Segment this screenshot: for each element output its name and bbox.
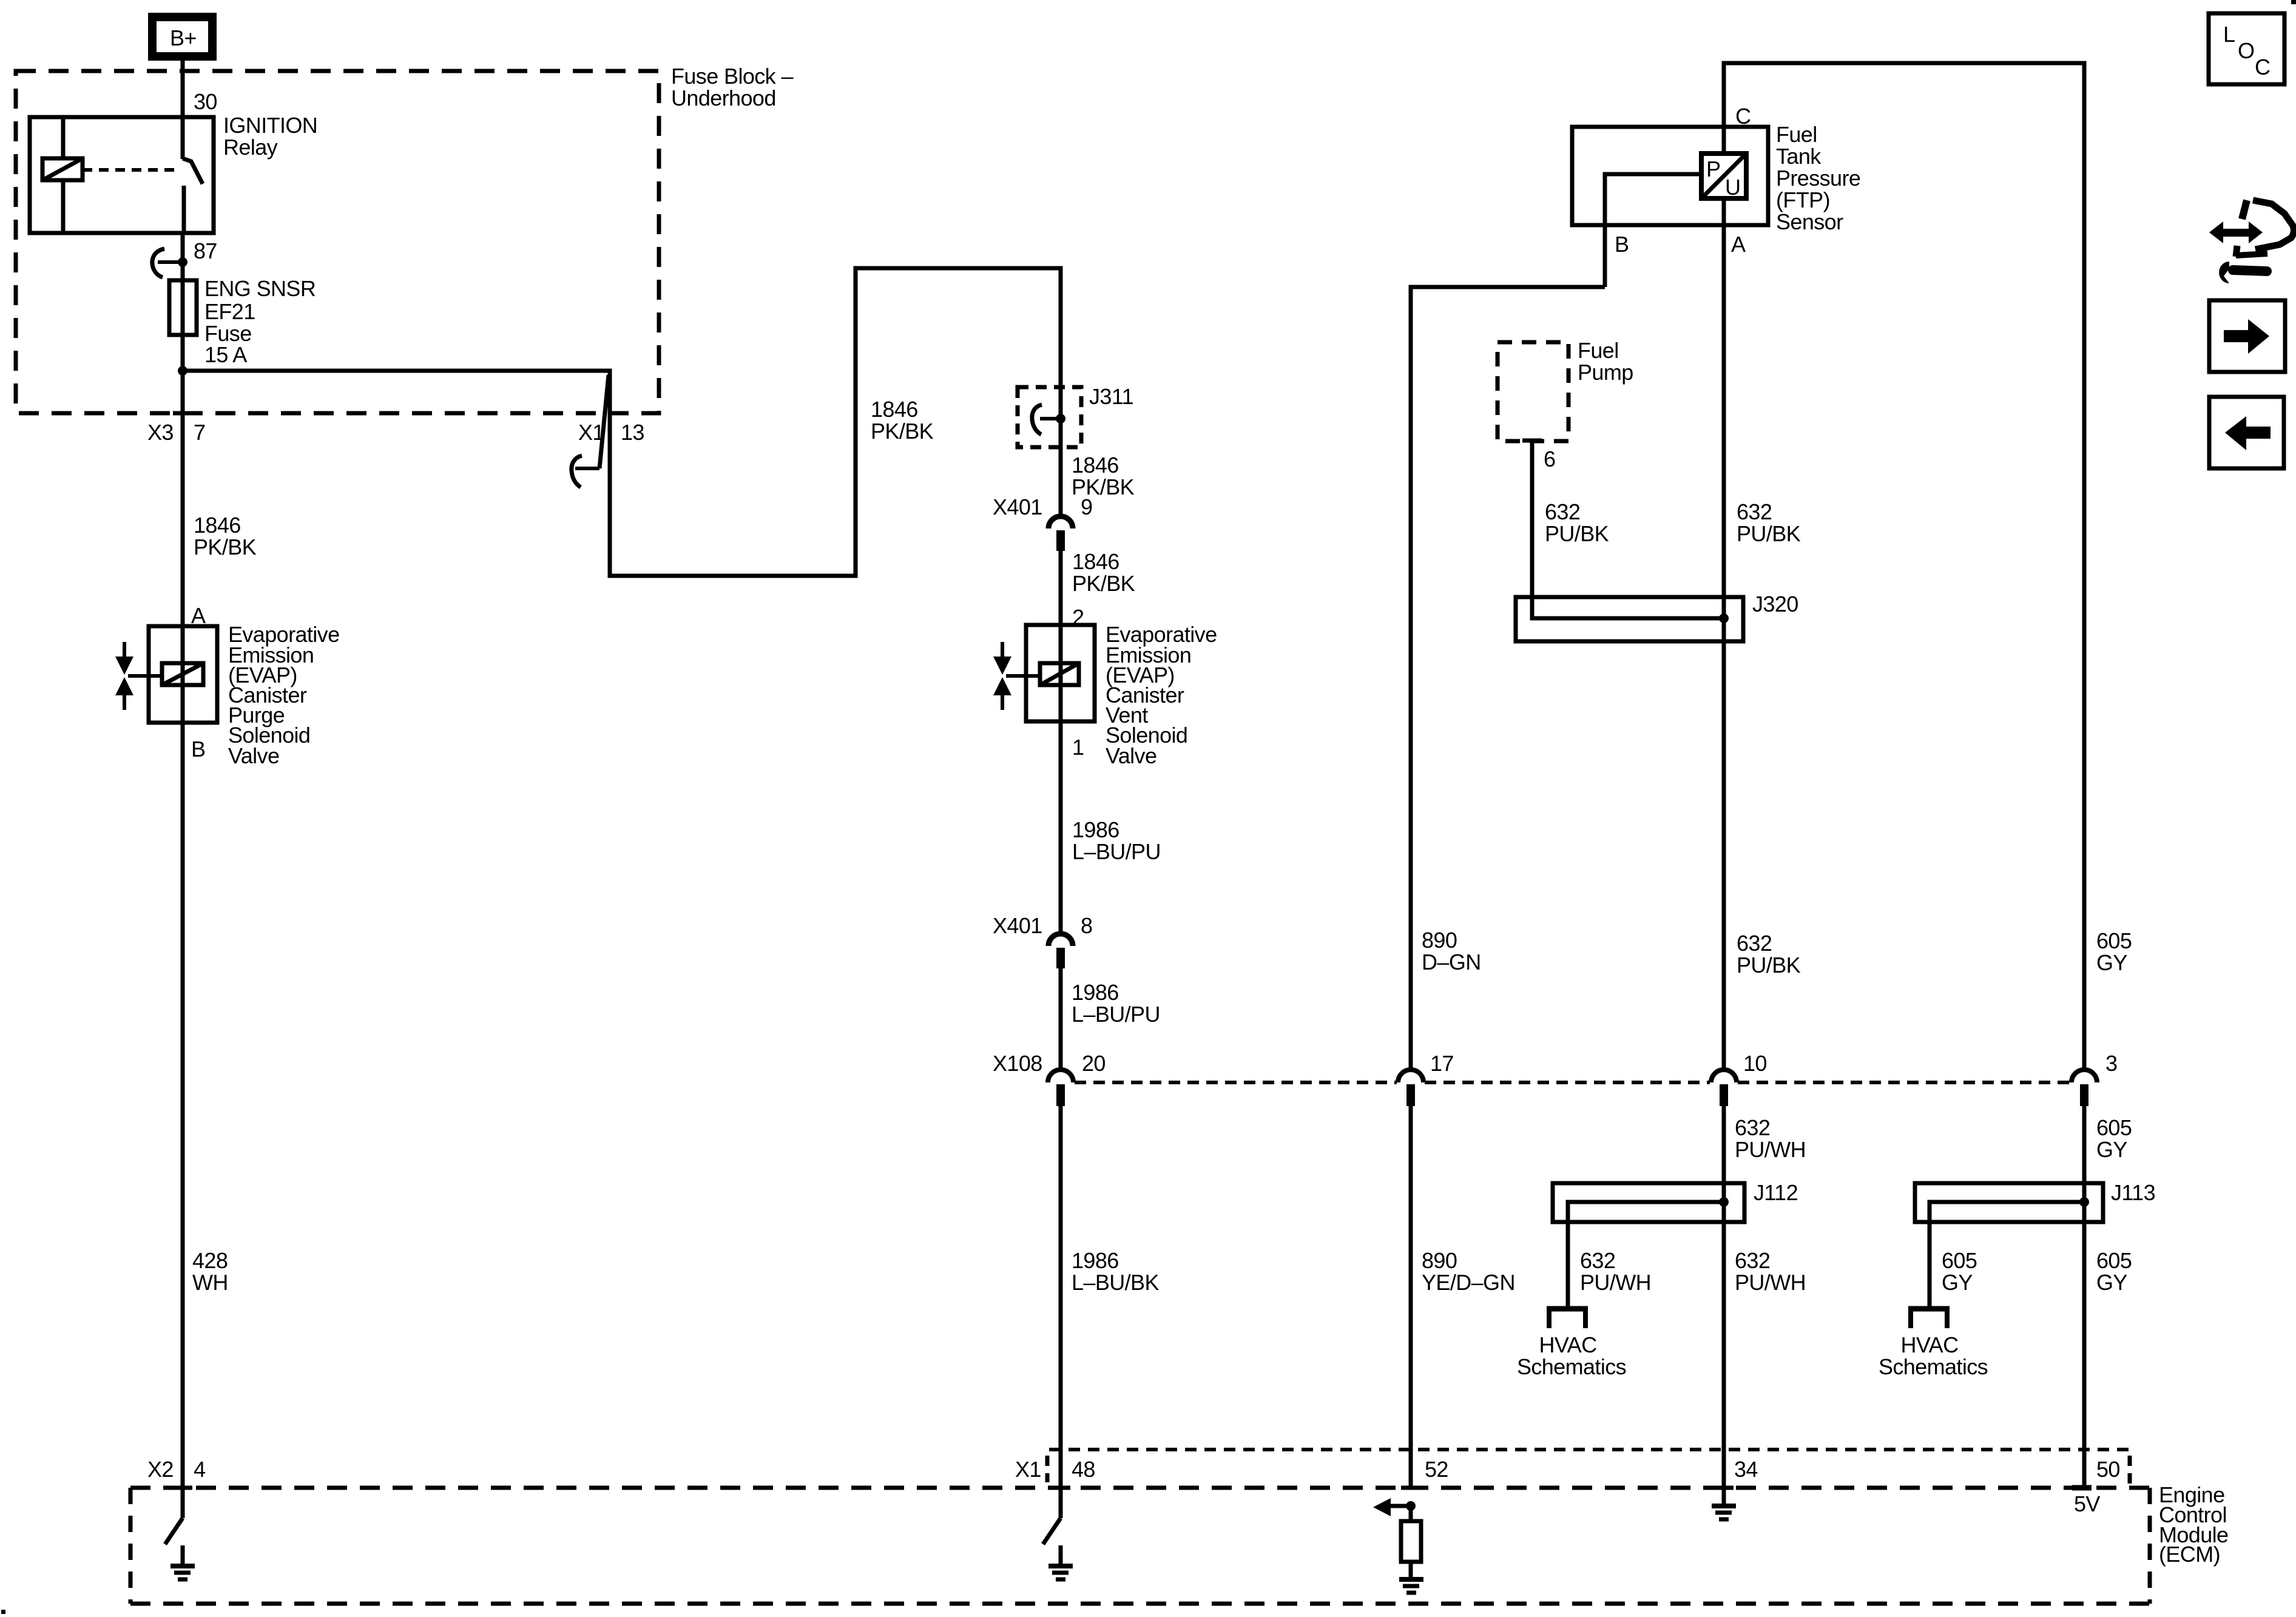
svg-text:48: 48 (1072, 1457, 1095, 1482)
label 605 GY HVAC drop (1942, 1248, 1977, 1295)
relay label (223, 113, 317, 160)
svg-text:890: 890 (1422, 928, 1457, 953)
tick at X2-4 ECM crossing (173, 1486, 192, 1490)
svg-text:HVAC: HVAC (1901, 1332, 1959, 1357)
label 632 PU/WH above J112 (1735, 1115, 1806, 1162)
tick at 52 crossing (1401, 1486, 1420, 1490)
wire B+ down to relay switch pivot (181, 61, 185, 159)
label Engine Control Module (ECM) (2159, 1482, 2228, 1567)
fuse ENG SNSR EF21 (169, 280, 197, 335)
svg-text:30: 30 (194, 89, 217, 114)
svg-text:X401: X401 (993, 495, 1042, 519)
svg-text:6: 6 (1544, 447, 1555, 471)
svg-text:Pump: Pump (1578, 360, 1633, 385)
svg-text:X2: X2 (147, 1457, 174, 1482)
purge solenoid coil (162, 663, 203, 685)
ground inside ECM at pin 34 (1712, 1488, 1736, 1519)
label X401 9 (993, 495, 1092, 519)
LOC reference box (2209, 13, 2284, 84)
ECM junction dot at pin 52 (1406, 1501, 1416, 1511)
svg-text:C: C (2255, 55, 2270, 79)
svg-text:J112: J112 (1754, 1180, 1798, 1205)
FTP internal wiring to pin B (1605, 174, 1701, 287)
tick at X3 connector crossing (173, 411, 192, 416)
label X401 8 (993, 913, 1092, 938)
wire B left and down to X108-17 (1411, 287, 1605, 1070)
J113 junction dot (2079, 1197, 2089, 1207)
svg-text:L–BU/PU: L–BU/PU (1072, 1002, 1160, 1027)
svg-text:8: 8 (1081, 913, 1092, 938)
svg-text:7: 7 (194, 420, 205, 445)
label Fuse Block - Underhood (671, 64, 793, 110)
svg-text:1846: 1846 (194, 513, 241, 538)
forward arrow box (2209, 300, 2285, 372)
ground inside ECM at pin 4 (171, 1545, 195, 1579)
svg-text:J320: J320 (1752, 592, 1798, 616)
resistor inside ECM (1401, 1506, 1421, 1577)
svg-text:WH: WH (192, 1270, 228, 1295)
svg-text:Underhood: Underhood (671, 86, 776, 110)
wire fuse to output junction (181, 335, 185, 371)
splice J113 bus bar (1915, 1183, 2103, 1222)
splice J311 dashed box (1018, 387, 1081, 447)
connector X108 pin 20 (1048, 1070, 1073, 1106)
ground inside ECM at pin 52 (1399, 1579, 1423, 1593)
label 1846 PK/BK left wire (194, 513, 257, 559)
service information icon vehicle with arrow and wrench (2209, 200, 2294, 283)
connector X108 pin 3 (2071, 1070, 2097, 1106)
svg-text:PU/WH: PU/WH (1735, 1137, 1806, 1162)
label X3 7 (147, 420, 205, 445)
svg-text:O: O (2238, 38, 2254, 63)
svg-text:605: 605 (1942, 1248, 1977, 1273)
wire relay 87 to fuse (181, 233, 185, 280)
purge valve label (228, 622, 340, 768)
svg-text:Schematics: Schematics (1517, 1354, 1626, 1379)
wire X108-20 down to ECM X1-48 (1059, 1106, 1063, 1518)
back arrow box (2209, 397, 2284, 468)
X1 ECM connector dotted line (1047, 1450, 2131, 1487)
svg-text:GY: GY (1942, 1270, 1973, 1295)
svg-text:PU/BK: PU/BK (1737, 953, 1801, 977)
Fuel Pump dashed box (1497, 342, 1568, 441)
vent solenoid coil (1040, 663, 1079, 685)
page artifact bottom left (1, 1610, 5, 1614)
ECM internal switch at pin 48 (1043, 1518, 1061, 1544)
svg-text:Fuse Block –: Fuse Block – (671, 64, 793, 89)
svg-text:Pressure: Pressure (1776, 166, 1860, 191)
svg-text:1846: 1846 (1072, 453, 1119, 478)
label 605 GY above J113 (2096, 1115, 2132, 1162)
label 428 WH (192, 1248, 228, 1295)
svg-text:5V: 5V (2074, 1491, 2100, 1516)
label X1 48 (1015, 1457, 1095, 1482)
label X2 4 (147, 1457, 205, 1482)
EVAP canister purge solenoid valve box (149, 626, 217, 723)
label 632 PU/BK pump wire (1545, 499, 1609, 546)
wire vent 1 down to X401-8 (1059, 721, 1063, 931)
svg-text:X108: X108 (993, 1051, 1042, 1076)
label 890 D-GN (1422, 928, 1481, 974)
svg-text:1: 1 (1072, 735, 1084, 760)
label 1846 PK/BK below J311 (1072, 453, 1135, 499)
svg-text:632: 632 (1735, 1115, 1770, 1140)
wire X108-17 down to ECM 52 (1409, 1106, 1413, 1488)
connector X1 pin 13 pass-through (572, 375, 609, 487)
J320 junction dot (1719, 613, 1729, 623)
vent valve label (1106, 622, 1217, 768)
wire junction right and around loop to J311 drop (183, 268, 1061, 576)
wire X108-3 down to ECM 50 (2082, 1106, 2087, 1488)
B+ power terminal (152, 17, 212, 56)
svg-text:PK/BK: PK/BK (194, 535, 257, 559)
Fuel Pump label (1578, 338, 1633, 385)
svg-text:15 A: 15 A (204, 342, 247, 367)
svg-text:1986: 1986 (1072, 1248, 1119, 1273)
svg-text:GY: GY (2096, 950, 2127, 975)
svg-text:PU/WH: PU/WH (1735, 1270, 1806, 1295)
harness clip symbol at fuse feed (152, 249, 187, 277)
svg-text:Relay: Relay (223, 135, 278, 160)
fuse label ENG SNSR EF21 Fuse 15 A (204, 276, 316, 367)
svg-text:50: 50 (2096, 1457, 2120, 1482)
label 1846 PK/BK below X401-9 (1072, 549, 1135, 596)
svg-text:GY: GY (2096, 1137, 2127, 1162)
svg-text:632: 632 (1737, 931, 1772, 956)
svg-text:PU/BK: PU/BK (1737, 521, 1801, 546)
label 605 GY right upper (2096, 928, 2132, 975)
svg-text:605: 605 (2096, 928, 2132, 953)
svg-text:A: A (1731, 232, 1746, 257)
svg-text:X401: X401 (993, 913, 1042, 938)
svg-text:PK/BK: PK/BK (871, 419, 934, 444)
svg-text:Fuel: Fuel (1776, 122, 1817, 147)
EVAP canister vent solenoid valve box (1026, 625, 1095, 721)
svg-text:X3: X3 (147, 420, 174, 445)
svg-text:PK/BK: PK/BK (1072, 571, 1135, 596)
svg-text:1986: 1986 (1072, 980, 1119, 1005)
label 632 PU/WH below J112 (1735, 1248, 1806, 1295)
connector X401 pin 9 (1048, 516, 1073, 551)
J112 internal wire and HVAC drop (1568, 1202, 1724, 1307)
tick at X1-48 ECM crossing (1051, 1486, 1070, 1490)
svg-text:605: 605 (2096, 1115, 2132, 1140)
label 632 PU/BK A wire upper (1737, 499, 1801, 546)
svg-text:Fuel: Fuel (1578, 338, 1619, 363)
splice J320 bus bar (1516, 597, 1743, 641)
connector X108 pin 17 (1398, 1070, 1423, 1106)
svg-text:B: B (191, 737, 205, 761)
J113 internal wire and HVAC drop (1930, 1202, 2084, 1307)
svg-text:632: 632 (1545, 499, 1580, 524)
svg-text:34: 34 (1734, 1457, 1758, 1482)
svg-text:(ECM): (ECM) (2159, 1542, 2220, 1567)
svg-text:87: 87 (194, 238, 217, 263)
svg-text:YE/D–GN: YE/D–GN (1422, 1270, 1515, 1295)
svg-text:9: 9 (1081, 495, 1092, 519)
svg-text:B+: B+ (170, 25, 197, 50)
svg-text:890: 890 (1422, 1248, 1457, 1273)
svg-text:1846: 1846 (1072, 549, 1119, 574)
svg-text:10: 10 (1743, 1051, 1767, 1076)
wire X108-10 down to ECM 34 (1722, 1106, 1726, 1488)
relay coil-switch dashed link (83, 168, 180, 172)
svg-text:428: 428 (192, 1248, 228, 1273)
wire purge B down to ECM X2-4 (181, 723, 185, 1518)
svg-text:J311: J311 (1089, 384, 1133, 409)
connector X108 pin 10 (1711, 1070, 1737, 1106)
svg-text:632: 632 (1737, 499, 1772, 524)
svg-text:Valve: Valve (228, 743, 279, 768)
svg-text:PU/BK: PU/BK (1545, 521, 1609, 546)
label 1986 L-BU/PU upper (1072, 817, 1161, 864)
off-page arrow at pin 52 (1373, 1498, 1411, 1516)
svg-text:HVAC: HVAC (1539, 1332, 1597, 1357)
svg-text:52: 52 (1425, 1457, 1448, 1482)
svg-text:3: 3 (2105, 1051, 2117, 1076)
svg-text:632: 632 (1735, 1248, 1770, 1273)
5V reference wire C up over to right side down to X108-3 (1724, 63, 2084, 1070)
HVAC Schematics label left (1517, 1332, 1626, 1379)
FTP P/U transducer (1701, 154, 1746, 200)
svg-text:20: 20 (1082, 1051, 1106, 1076)
svg-text:C: C (1735, 104, 1751, 129)
svg-text:605: 605 (2096, 1248, 2132, 1273)
svg-text:632: 632 (1580, 1248, 1615, 1273)
svg-text:X1: X1 (1015, 1457, 1041, 1482)
svg-text:4: 4 (194, 1457, 205, 1482)
label 1986 L-BU/BK (1072, 1248, 1159, 1295)
terminal bar at pin 50 (2072, 1485, 2092, 1491)
label 1846 PK/BK at loop (871, 397, 934, 444)
svg-text:Valve: Valve (1106, 743, 1156, 768)
Fuel Tank Pressure sensor box (1572, 127, 1768, 225)
svg-text:P: P (1706, 157, 1720, 181)
svg-text:D–GN: D–GN (1422, 950, 1481, 974)
label 632 PU/BK A wire lower (1737, 931, 1801, 977)
label 605 GY below J113 (2096, 1248, 2132, 1295)
X108 in-line connector dashed line (1075, 1081, 2070, 1084)
connector X401 pin 8 (1048, 934, 1073, 968)
tick at 34 crossing (1714, 1486, 1734, 1490)
svg-text:Schematics: Schematics (1879, 1354, 1988, 1379)
junction dot at fuse output (178, 366, 187, 376)
J311 junction dot and clip (1032, 405, 1065, 434)
HVAC off-page connector right (1908, 1306, 1950, 1328)
J112 junction dot (1719, 1197, 1729, 1207)
wire fuel pump 6 down into J320 (1532, 441, 1724, 618)
svg-text:L: L (2223, 22, 2235, 47)
svg-text:X1: X1 (578, 420, 604, 445)
page artifact top right (2291, 0, 2296, 4)
svg-text:L–BU/PU: L–BU/PU (1072, 839, 1161, 864)
ignition relay box (30, 117, 214, 233)
svg-text:13: 13 (621, 420, 644, 445)
label 632 PU/WH HVAC drop (1580, 1248, 1651, 1295)
vent valve symbol (993, 642, 1040, 710)
Engine Control Module dashed box (130, 1488, 2151, 1604)
wire A down to X108-10 (1722, 198, 1726, 1070)
label 1986 L-BU/PU lower (1072, 980, 1160, 1027)
svg-text:PU/WH: PU/WH (1580, 1270, 1651, 1295)
svg-text:ENG SNSR: ENG SNSR (204, 276, 316, 301)
label X108 20 (993, 1051, 1106, 1076)
wire X401-9 to vent valve (1059, 551, 1063, 625)
relay coil (42, 117, 83, 233)
relay switch blade and contact (183, 158, 203, 233)
wire X3-7 down to purge valve A (181, 371, 185, 626)
svg-text:Tank: Tank (1776, 144, 1822, 169)
ground inside ECM at pin 48 (1048, 1545, 1073, 1579)
svg-text:1986: 1986 (1072, 817, 1119, 842)
FTP sensor label (1776, 122, 1860, 234)
label X1 13 (578, 420, 644, 445)
svg-text:(FTP): (FTP) (1776, 187, 1830, 212)
svg-text:B: B (1615, 232, 1629, 257)
HVAC off-page connector left (1547, 1306, 1588, 1328)
label 890 YE/D-GN (1422, 1248, 1515, 1295)
svg-text:EF21: EF21 (204, 299, 255, 324)
svg-text:U: U (1725, 175, 1740, 200)
svg-text:17: 17 (1430, 1051, 1454, 1076)
Fuse Block - Underhood dashed box (16, 71, 659, 413)
ECM internal switch at pin 4 (165, 1518, 183, 1544)
wire X401-8 to X108-20 (1059, 968, 1063, 1070)
fuel pump pin 6 tick (1522, 439, 1542, 443)
svg-text:Sensor: Sensor (1776, 209, 1843, 234)
svg-text:1846: 1846 (871, 397, 918, 422)
splice J112 bus bar (1553, 1183, 1744, 1222)
svg-text:IGNITION: IGNITION (223, 113, 317, 138)
svg-text:L–BU/BK: L–BU/BK (1072, 1270, 1159, 1295)
svg-text:GY: GY (2096, 1270, 2127, 1295)
svg-text:J113: J113 (2111, 1180, 2155, 1205)
purge valve symbol (115, 642, 162, 710)
HVAC Schematics label right (1879, 1332, 1988, 1379)
